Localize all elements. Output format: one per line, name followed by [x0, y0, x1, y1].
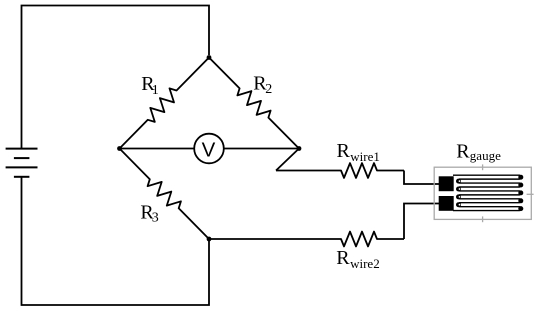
wire bottom from battery to bottom node — [22, 178, 210, 306]
resistor R2 — [209, 58, 299, 149]
wire right node jog down — [276, 149, 299, 171]
svg-text:3: 3 — [152, 211, 159, 226]
gauge terminal pad bottom — [439, 196, 454, 211]
svg-text:R: R — [337, 140, 351, 162]
wire voltmeter to right node — [224, 148, 299, 150]
svg-text:2: 2 — [265, 82, 272, 97]
wire left node to voltmeter — [120, 148, 195, 150]
node right — [297, 146, 302, 151]
node top — [207, 55, 212, 60]
voltmeter V — [194, 134, 224, 164]
svg-text:V: V — [202, 138, 216, 161]
wire Rwire2 to gauge bottom terminal — [404, 204, 441, 240]
resistor R1 — [120, 58, 210, 149]
wire Rwire1 to gauge top terminal — [404, 171, 441, 185]
svg-text:1: 1 — [152, 83, 159, 98]
wire top from battery to top node — [22, 6, 210, 149]
node bottom — [207, 237, 212, 242]
svg-text:wire1: wire1 — [350, 149, 380, 164]
resistor R3 — [120, 149, 210, 240]
battery B1 — [6, 149, 38, 177]
svg-text:R: R — [456, 140, 470, 162]
label R3 — [140, 201, 158, 225]
node left — [117, 146, 122, 151]
label R2 — [253, 73, 272, 98]
label Rwire2 — [336, 247, 380, 271]
svg-text:R: R — [336, 247, 350, 269]
gauge terminal pad top — [439, 176, 454, 191]
strain gauge foil grid — [453, 175, 523, 211]
strain gauge Rgauge body outline — [434, 164, 533, 222]
label Rgauge — [456, 140, 501, 163]
label R1 — [141, 73, 159, 98]
label Rwire1 — [337, 140, 380, 164]
resistor Rwire1 — [276, 163, 404, 178]
svg-text:gauge: gauge — [470, 148, 501, 163]
resistor Rwire2 — [209, 232, 404, 247]
svg-text:wire2: wire2 — [350, 256, 380, 271]
